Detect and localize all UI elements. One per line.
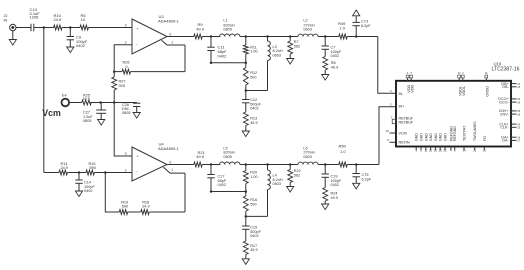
svg-text:590: 590: [90, 166, 96, 170]
op-amp U4 ADA4899-1: [125, 142, 180, 182]
net arrow down: [353, 183, 360, 189]
svg-text:CNV-: CNV-: [500, 112, 510, 116]
svg-text:49.9: 49.9: [196, 26, 205, 31]
ground: [75, 191, 82, 197]
svg-text:GND: GND: [429, 133, 433, 141]
svg-text:IN-: IN-: [399, 92, 405, 96]
node P: [210, 163, 213, 166]
ground: [287, 59, 294, 65]
terminal E4 Vcm: [42, 94, 69, 119]
node U: [289, 163, 292, 166]
op-amp U3 ADA4899-1: [125, 14, 180, 54]
resistor R16 500: [243, 192, 257, 217]
connector J2 IN: [4, 14, 17, 31]
ground: [322, 75, 329, 81]
node N: [78, 171, 81, 174]
node W: [355, 163, 358, 166]
svg-text:0805: 0805: [223, 27, 231, 31]
svg-text:PD: PD: [483, 136, 487, 141]
svg-text:24.9: 24.9: [61, 166, 68, 170]
resistor R49 1.0: [338, 21, 347, 39]
svg-text:0603: 0603: [303, 27, 311, 31]
wire: [211, 191, 246, 193]
svg-text:0603: 0603: [273, 53, 281, 57]
resistor R25 49.9: [82, 93, 92, 105]
svg-text:0402: 0402: [84, 189, 92, 193]
svg-text:L2: L2: [303, 18, 307, 22]
node F: [245, 35, 248, 38]
pin 2 label: [390, 103, 392, 107]
capacitor C11 68pF: [207, 37, 227, 63]
node J: [324, 35, 327, 38]
svg-text:1: 1: [171, 168, 173, 172]
resistor R21 49.9: [194, 150, 206, 167]
resistor R13 49.9: [243, 112, 257, 131]
resistor R24 49.9: [323, 188, 338, 205]
wire: [44, 172, 59, 174]
capacitor C15 500pF: [242, 216, 262, 239]
svg-text:6: 6: [170, 160, 172, 164]
wire: [318, 36, 339, 38]
resistor R50 1.0: [339, 144, 348, 167]
capacitor C26 DNI: [122, 103, 140, 116]
wire: [89, 27, 133, 29]
svg-text:0603: 0603: [273, 182, 281, 186]
svg-text:GND: GND: [415, 133, 419, 141]
svg-text:DB-: DB-: [502, 85, 509, 89]
pin 3 label: [390, 89, 392, 93]
svg-text:E4: E4: [62, 94, 67, 98]
capacitor C27 1.0uF: [83, 103, 106, 124]
svg-text:3: 3: [125, 152, 127, 156]
node H: [266, 35, 269, 38]
svg-text:2: 2: [125, 41, 127, 45]
svg-text:6: 6: [170, 32, 172, 36]
svg-text:0805: 0805: [122, 111, 130, 115]
ground: [133, 113, 140, 119]
node I: [289, 35, 292, 38]
ground: [98, 120, 105, 126]
svg-text:VCM: VCM: [399, 132, 407, 136]
resistor R26 0: [114, 61, 185, 75]
node Q: [210, 190, 247, 193]
wire: [379, 107, 396, 165]
wire: [114, 45, 132, 72]
svg-text:VDDL: VDDL: [462, 86, 466, 96]
wire: [240, 36, 298, 38]
svg-text:1.00: 1.00: [250, 175, 257, 179]
ground: [242, 131, 249, 137]
svg-text:DNI: DNI: [119, 84, 126, 88]
net arrow up: [353, 10, 360, 16]
svg-text:0603: 0603: [303, 155, 311, 159]
svg-text:49.9: 49.9: [250, 248, 257, 252]
svg-text:REFGND: REFGND: [453, 126, 457, 141]
resistor R12 500: [243, 63, 257, 91]
node S: [245, 215, 248, 218]
svg-text:0402: 0402: [250, 107, 258, 111]
wire: [162, 40, 186, 71]
svg-text:1.00: 1.00: [250, 50, 257, 54]
resistor R22 562: [288, 165, 301, 187]
svg-text:TWOLANES: TWOLANES: [473, 121, 477, 141]
ADC U10 LTC2387-16: [386, 62, 521, 153]
svg-text:TESTPAT: TESTPAT: [463, 125, 467, 141]
node G: [245, 89, 248, 92]
svg-text:1206: 1206: [30, 15, 40, 20]
capacitor C12 500pF: [242, 91, 262, 113]
svg-text:IN: IN: [4, 19, 8, 23]
node A: [43, 26, 46, 29]
svg-text:OVDD: OVDD: [486, 86, 490, 97]
capacitor C9 100pF: [67, 28, 88, 49]
node B: [69, 26, 72, 29]
svg-text:24.9: 24.9: [142, 204, 149, 208]
capacitor C7 100pF: [322, 37, 342, 59]
svg-text:6.2pF: 6.2pF: [362, 177, 372, 181]
wire: [43, 28, 45, 173]
resistor R6 10: [80, 13, 88, 30]
svg-text:49.9: 49.9: [196, 154, 205, 159]
resistor R18 24.9: [141, 200, 150, 214]
ground: [287, 187, 294, 193]
svg-text:DCO-: DCO-: [499, 100, 509, 104]
wire: [90, 102, 137, 104]
wire: [167, 36, 194, 38]
ground: [322, 204, 329, 210]
node D: [210, 35, 213, 38]
svg-text:3: 3: [125, 23, 127, 27]
svg-text:10: 10: [81, 17, 86, 22]
svg-text:49.9: 49.9: [331, 196, 338, 200]
inductor L5 820nH: [220, 146, 240, 164]
wire: [114, 103, 132, 157]
wire: [67, 172, 86, 174]
capacitor C14 100pF: [75, 173, 95, 194]
inductor L4 8.2nH: [246, 165, 283, 217]
svg-text:1.0: 1.0: [340, 149, 346, 154]
svg-text:0805: 0805: [83, 119, 91, 123]
resistor R20 1.00: [243, 165, 257, 192]
svg-text:GND: GND: [439, 133, 443, 141]
wire: [347, 36, 378, 38]
resistor R17 49.9: [243, 240, 257, 259]
svg-text:0402: 0402: [331, 183, 339, 187]
svg-text:GND: GND: [424, 133, 428, 141]
resistor R15 590: [86, 162, 96, 175]
wire: [105, 173, 119, 213]
node M: [113, 101, 116, 104]
svg-text:GND: GND: [420, 133, 424, 141]
node L: [99, 101, 102, 104]
wire: [202, 36, 220, 38]
svg-text:49.9: 49.9: [331, 65, 338, 69]
inductor L6 270nH: [298, 146, 318, 164]
resistor R8 49.9: [323, 57, 338, 75]
svg-text:500: 500: [250, 202, 256, 206]
wire: [318, 164, 339, 166]
wire: [347, 164, 379, 166]
node C: [113, 70, 116, 73]
svg-text:2: 2: [125, 168, 127, 172]
svg-text:CLK-: CLK-: [500, 126, 509, 130]
wire: [378, 37, 396, 94]
svg-text:562: 562: [294, 45, 300, 49]
resistor R11 1.00: [243, 37, 257, 63]
svg-text:49.9: 49.9: [250, 121, 257, 125]
svg-text:LTC2387-16: LTC2387-16: [492, 67, 520, 73]
inductor L2 270nH: [298, 18, 318, 36]
resistor R7 562: [288, 37, 300, 59]
svg-text:0402: 0402: [331, 54, 339, 58]
resistor R19 590: [119, 200, 128, 214]
svg-text:0402: 0402: [76, 43, 86, 48]
svg-text:L1: L1: [223, 19, 227, 23]
svg-text:500: 500: [250, 75, 256, 79]
svg-text:0: 0: [126, 65, 128, 69]
node K: [355, 35, 358, 38]
svg-text:1.0: 1.0: [340, 25, 346, 30]
node E: [210, 62, 247, 65]
capacitor C19 100pF: [322, 165, 342, 188]
svg-text:Vcm: Vcm: [42, 108, 61, 118]
wire: [16, 27, 31, 29]
node R: [245, 163, 248, 166]
svg-text:24.9: 24.9: [54, 17, 63, 22]
svg-text:0402: 0402: [218, 183, 226, 187]
wire: [94, 172, 132, 174]
wire: [34, 27, 54, 29]
svg-text:0402: 0402: [250, 234, 258, 238]
inductor L1 820nH: [220, 19, 240, 37]
svg-text:6.2pF: 6.2pF: [361, 24, 371, 28]
capacitor C75 6.2pF: [353, 165, 372, 184]
resistor R9 49.9: [194, 22, 205, 39]
inductor L3 8.2nH: [246, 37, 283, 91]
resistor R14 24.9: [59, 162, 68, 175]
wire: [211, 62, 246, 64]
svg-text:DA-: DA-: [502, 139, 509, 143]
node O: [104, 171, 107, 174]
node V: [324, 163, 327, 166]
svg-text:REFBUF: REFBUF: [399, 120, 414, 124]
svg-text:562: 562: [294, 173, 300, 177]
svg-text:VDD: VDD: [411, 84, 415, 92]
wire: [128, 211, 141, 213]
wire: [202, 164, 220, 166]
svg-text:J2: J2: [4, 14, 8, 18]
wire: [150, 167, 186, 212]
svg-text:10: 10: [386, 129, 390, 133]
svg-text:GND: GND: [434, 133, 438, 141]
wire: [69, 102, 82, 104]
capacitor C13 0.1uF: [30, 7, 41, 31]
svg-text:ADA4899-1: ADA4899-1: [158, 18, 179, 23]
svg-text:1: 1: [171, 41, 173, 45]
svg-text:0805: 0805: [223, 155, 231, 159]
wire: [62, 27, 80, 29]
capacitor C73 6.2pF: [353, 16, 372, 37]
node T: [266, 163, 269, 166]
svg-text:R50: R50: [339, 144, 347, 149]
resistor R27 DNI: [112, 72, 126, 103]
capacitor C17 68pF: [207, 165, 227, 192]
wire: [240, 164, 298, 166]
svg-text:0402: 0402: [218, 53, 228, 58]
svg-text:REFIN: REFIN: [399, 141, 410, 145]
resistor R10 24.9: [54, 13, 63, 30]
ground: [67, 47, 74, 53]
svg-text:ADA4899-1: ADA4899-1: [158, 146, 179, 151]
wire: [167, 164, 194, 166]
svg-text:IN+: IN+: [399, 105, 405, 109]
svg-text:590: 590: [122, 204, 128, 208]
svg-text:GND: GND: [444, 133, 448, 141]
svg-text:49.9: 49.9: [83, 97, 90, 101]
ground: [9, 31, 16, 45]
ground: [242, 259, 249, 265]
